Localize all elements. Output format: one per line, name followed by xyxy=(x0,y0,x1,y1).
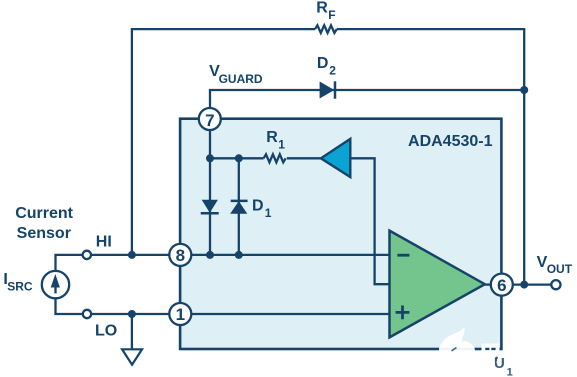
svg-text:1: 1 xyxy=(278,137,285,151)
svg-text:7: 7 xyxy=(205,111,214,130)
svg-text:1: 1 xyxy=(265,206,272,220)
svg-text:8: 8 xyxy=(176,246,185,265)
svg-text:R: R xyxy=(266,129,278,146)
svg-text:1: 1 xyxy=(507,366,513,377)
svg-text:F: F xyxy=(328,8,335,22)
svg-text:Sensor: Sensor xyxy=(17,225,71,242)
svg-text:1: 1 xyxy=(176,305,185,324)
svg-text:6: 6 xyxy=(497,276,506,295)
svg-text:D: D xyxy=(252,198,264,215)
svg-text:GUARD: GUARD xyxy=(219,72,263,86)
svg-text:R: R xyxy=(316,0,328,17)
svg-text:Current: Current xyxy=(15,205,73,222)
svg-text:HI: HI xyxy=(96,234,112,251)
svg-text:LO: LO xyxy=(95,322,117,339)
svg-text:D: D xyxy=(317,55,329,72)
svg-text:SRC: SRC xyxy=(7,279,33,293)
svg-text:OUT: OUT xyxy=(547,262,573,276)
svg-text:2: 2 xyxy=(329,63,336,77)
svg-text:ADA4530-1: ADA4530-1 xyxy=(408,133,493,150)
